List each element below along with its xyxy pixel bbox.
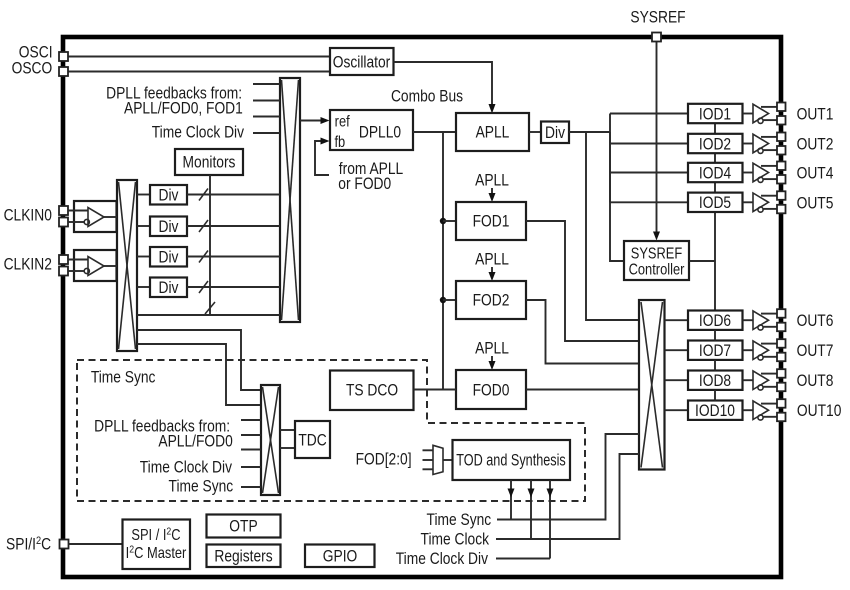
wire FOD2 to output crossbar (526, 300, 639, 364)
wire bus to IOD1 (610, 113, 688, 115)
svg-text:OUT1: OUT1 (797, 105, 834, 123)
pin OUT10P (777, 399, 786, 408)
pin OSCO (59, 67, 68, 76)
svg-text:Combo Bus: Combo Bus (391, 87, 463, 105)
pin OUT4N (777, 175, 786, 184)
svg-text:OUT6: OUT6 (797, 312, 834, 330)
svg-text:Time Sync: Time Sync (427, 511, 492, 529)
output buffer OUT6 (743, 311, 778, 330)
chip boundary border (63, 37, 781, 577)
svg-text:Controller: Controller (629, 261, 685, 278)
IOD distribution bus (610, 132, 624, 261)
OTP block (207, 515, 281, 538)
output buffer OUT4 (743, 163, 778, 182)
svg-text:CLKIN0: CLKIN0 (4, 206, 52, 224)
TOD output Time Sync arrow (510, 480, 512, 520)
pin OUT1P (777, 103, 786, 112)
Monitors block (175, 149, 243, 175)
FOD bus stubs (423, 449, 434, 451)
pin OUT7N (777, 353, 786, 362)
FOD2 block (456, 281, 526, 319)
Time Sync dashed region (77, 360, 585, 501)
svg-text:OUT4: OUT4 (797, 164, 834, 182)
svg-text:IOD7: IOD7 (699, 342, 731, 360)
svg-text:or FOD0: or FOD0 (338, 175, 391, 193)
wire FOD1 to output crossbar (526, 221, 639, 341)
FOD1 block (456, 202, 526, 240)
ts feedback stub 2 (241, 434, 261, 436)
svg-text:I2C Master: I2C Master (126, 544, 187, 563)
IOD1 block (688, 104, 743, 123)
svg-text:Div: Div (159, 186, 179, 204)
svg-text:SPI/I2C: SPI/I2C (6, 535, 51, 554)
wire OSCO to Oscillator (68, 71, 330, 73)
TOD output Time Clock arrow (530, 480, 532, 539)
pin OUT6P (777, 309, 786, 318)
wire Div to IOD bus (569, 131, 610, 133)
wire bus to IOD5 (610, 201, 688, 203)
pin OUT1N (777, 116, 786, 125)
pin SYSREF (652, 33, 661, 42)
pin OSCI (59, 52, 68, 61)
wire bus to IOD2 (610, 143, 688, 145)
IOD4 block (688, 163, 743, 182)
svg-text:CLKIN2: CLKIN2 (4, 255, 52, 273)
time sync crossbar (261, 385, 280, 495)
IOD10 block (688, 401, 743, 420)
svg-text:OUT2: OUT2 (797, 135, 834, 153)
node dot FOD2 input (440, 297, 446, 303)
svg-text:TOD and Synthesis: TOD and Synthesis (456, 451, 566, 469)
wire to FOD1 (443, 220, 456, 222)
GPIO block (305, 545, 375, 568)
pin OUT8P (777, 369, 786, 378)
svg-text:IOD4: IOD4 (699, 164, 732, 182)
IOD7 block (688, 341, 743, 360)
wire DPLL0 to APLL (413, 131, 456, 133)
output buffer OUT5 (743, 193, 778, 212)
svg-text:SPI / I2C: SPI / I2C (131, 526, 180, 545)
svg-text:OUT7: OUT7 (797, 342, 834, 360)
wire SYSREF down to controller with arrow (656, 42, 658, 237)
svg-text:IOD5: IOD5 (699, 194, 731, 212)
wire crossbar to time sync crossbar lower (137, 344, 261, 405)
divider Div 2 (137, 225, 150, 227)
output crossbar (right) (639, 300, 665, 470)
Time Clock Div stub (253, 132, 280, 134)
svg-text:fb: fb (334, 134, 345, 151)
svg-text:OUT5: OUT5 (797, 194, 834, 212)
svg-text:Time Sync: Time Sync (91, 368, 156, 386)
wire to FOD2 (443, 299, 456, 301)
svg-text:IOD10: IOD10 (695, 402, 735, 420)
IOD8 block (688, 371, 743, 390)
svg-text:FOD[2:0]: FOD[2:0] (356, 450, 412, 468)
svg-text:FOD0: FOD0 (473, 381, 510, 399)
svg-text:Time Clock Div: Time Clock Div (140, 458, 233, 476)
wire Oscillator to APLL with arrow (394, 62, 493, 110)
ts feedback stub 3 (241, 449, 261, 451)
svg-text:OTP: OTP (229, 517, 257, 535)
svg-text:APLL/FOD0: APLL/FOD0 (158, 432, 232, 450)
DPLL0 block (330, 110, 413, 150)
oscillator block (330, 48, 394, 75)
svg-text:Div: Div (159, 248, 179, 266)
svg-text:APLL: APLL (475, 171, 509, 189)
svg-text:Time Clock Div: Time Clock Div (396, 550, 489, 568)
svg-text:OSCO: OSCO (12, 59, 53, 77)
svg-text:IOD8: IOD8 (699, 372, 731, 390)
pin OUT2P (777, 133, 786, 142)
TOD and Synthesis block (453, 440, 571, 480)
svg-text:SYSREF: SYSREF (630, 8, 685, 26)
wire crossbar to IOD7 (665, 349, 689, 351)
IOD chain vertical (714, 123, 716, 310)
node dot FOD1 input (440, 218, 446, 224)
slash on monitors wire (205, 302, 215, 314)
divider Div 1 (137, 194, 150, 196)
wire FOD0 to output crossbar (526, 389, 639, 391)
IOD6 block (688, 311, 743, 330)
DPLL feedback stub 2 (253, 100, 280, 102)
reference crossbar (tall) (280, 78, 300, 322)
svg-text:TDC: TDC (298, 431, 326, 449)
SYSREF Controller block (624, 241, 689, 280)
svg-text:APLL: APLL (476, 123, 510, 141)
ts feedback stub 1 (241, 419, 261, 421)
ts Time Clock Div stub (241, 466, 261, 468)
svg-text:APLL/FOD0, FOD1: APLL/FOD0, FOD1 (124, 99, 243, 117)
svg-text:GPIO: GPIO (323, 547, 358, 565)
svg-text:IOD6: IOD6 (699, 312, 731, 330)
svg-text:Time Clock Div: Time Clock Div (152, 123, 245, 141)
svg-text:Div: Div (159, 279, 179, 297)
svg-text:Monitors: Monitors (183, 153, 236, 171)
pin OUT10N (777, 413, 786, 422)
pin OUT2N (777, 146, 786, 155)
pin OUT6N (777, 323, 786, 332)
wire controller to IOD chain (689, 260, 715, 262)
IOD chain links lower (714, 330, 716, 341)
wire crossbar to DPLL0 ref with arrow (300, 120, 326, 122)
TOD output Time Clock Div arrow (549, 480, 551, 559)
IOD2 block (688, 134, 743, 153)
svg-text:SYSREF: SYSREF (631, 245, 683, 262)
Div block (APLL output divider) (529, 131, 541, 133)
wire crossbar to IOD8 (665, 379, 689, 381)
wire Time Clock Div (496, 558, 550, 560)
svg-text:Div: Div (159, 218, 179, 236)
wire bus to IOD4 (610, 172, 688, 174)
FOD bus receiver trapezoid (433, 445, 443, 474)
DPLL feedback stub 1 (253, 83, 280, 85)
TDC block (280, 429, 295, 431)
wire combo bus vertical (442, 132, 444, 390)
left input crossbar (117, 180, 137, 351)
wire crossbar to IOD6 (665, 319, 689, 321)
output buffer OUT7 (743, 341, 778, 360)
svg-text:Div: Div (545, 124, 565, 142)
svg-text:APLL: APLL (475, 339, 509, 357)
pin OUT4P (777, 162, 786, 171)
divider Div 4 (137, 286, 150, 288)
pin OUT8N (777, 383, 786, 392)
wire OSCI to Oscillator (68, 56, 330, 58)
wire fb elbow (315, 141, 329, 175)
svg-text:FOD2: FOD2 (473, 291, 510, 309)
wire Div branch down to output crossbar (586, 132, 639, 320)
svg-text:Oscillator: Oscillator (333, 53, 390, 71)
svg-text:DPLL0: DPLL0 (359, 123, 401, 141)
wire Monitors down (209, 175, 211, 315)
svg-text:Time Sync: Time Sync (169, 477, 234, 495)
FOD0 block (456, 370, 526, 409)
pin OUT7P (777, 339, 786, 348)
divider Div 3 (137, 256, 150, 258)
svg-text:FOD1: FOD1 (473, 212, 510, 230)
wire crossbar to time sync crossbar upper (137, 330, 261, 390)
wire Time Sync to output crossbar (497, 434, 639, 520)
pin OUT5N (777, 205, 786, 214)
APLL block (456, 113, 529, 151)
svg-text:IOD2: IOD2 (699, 135, 731, 153)
svg-text:Registers: Registers (214, 547, 273, 565)
output buffer OUT10 (743, 401, 778, 420)
output buffer OUT8 (743, 371, 778, 390)
svg-text:OUT8: OUT8 (797, 372, 834, 390)
svg-text:OUT10: OUT10 (797, 402, 841, 420)
svg-text:APLL: APLL (475, 250, 509, 268)
wire Time Clock to output crossbar (496, 454, 639, 539)
wire crossbar to reference crossbar bottom (137, 314, 280, 316)
svg-text:TS DCO: TS DCO (346, 381, 398, 399)
svg-text:ref: ref (335, 113, 350, 130)
ts Time Sync stub (241, 486, 261, 488)
pin OUT5P (777, 191, 786, 200)
Registers block (207, 545, 281, 568)
svg-text:IOD1: IOD1 (699, 105, 731, 123)
svg-text:Time Clock: Time Clock (421, 530, 490, 548)
TS DCO block (330, 371, 414, 411)
wire TS DCO to FOD0 (414, 389, 457, 391)
output buffer OUT1 (743, 104, 778, 123)
wire crossbar to IOD10 (665, 409, 689, 411)
output buffer OUT2 (743, 134, 778, 153)
DPLL feedback stub 3 (253, 116, 280, 118)
IOD5 block (688, 193, 743, 212)
